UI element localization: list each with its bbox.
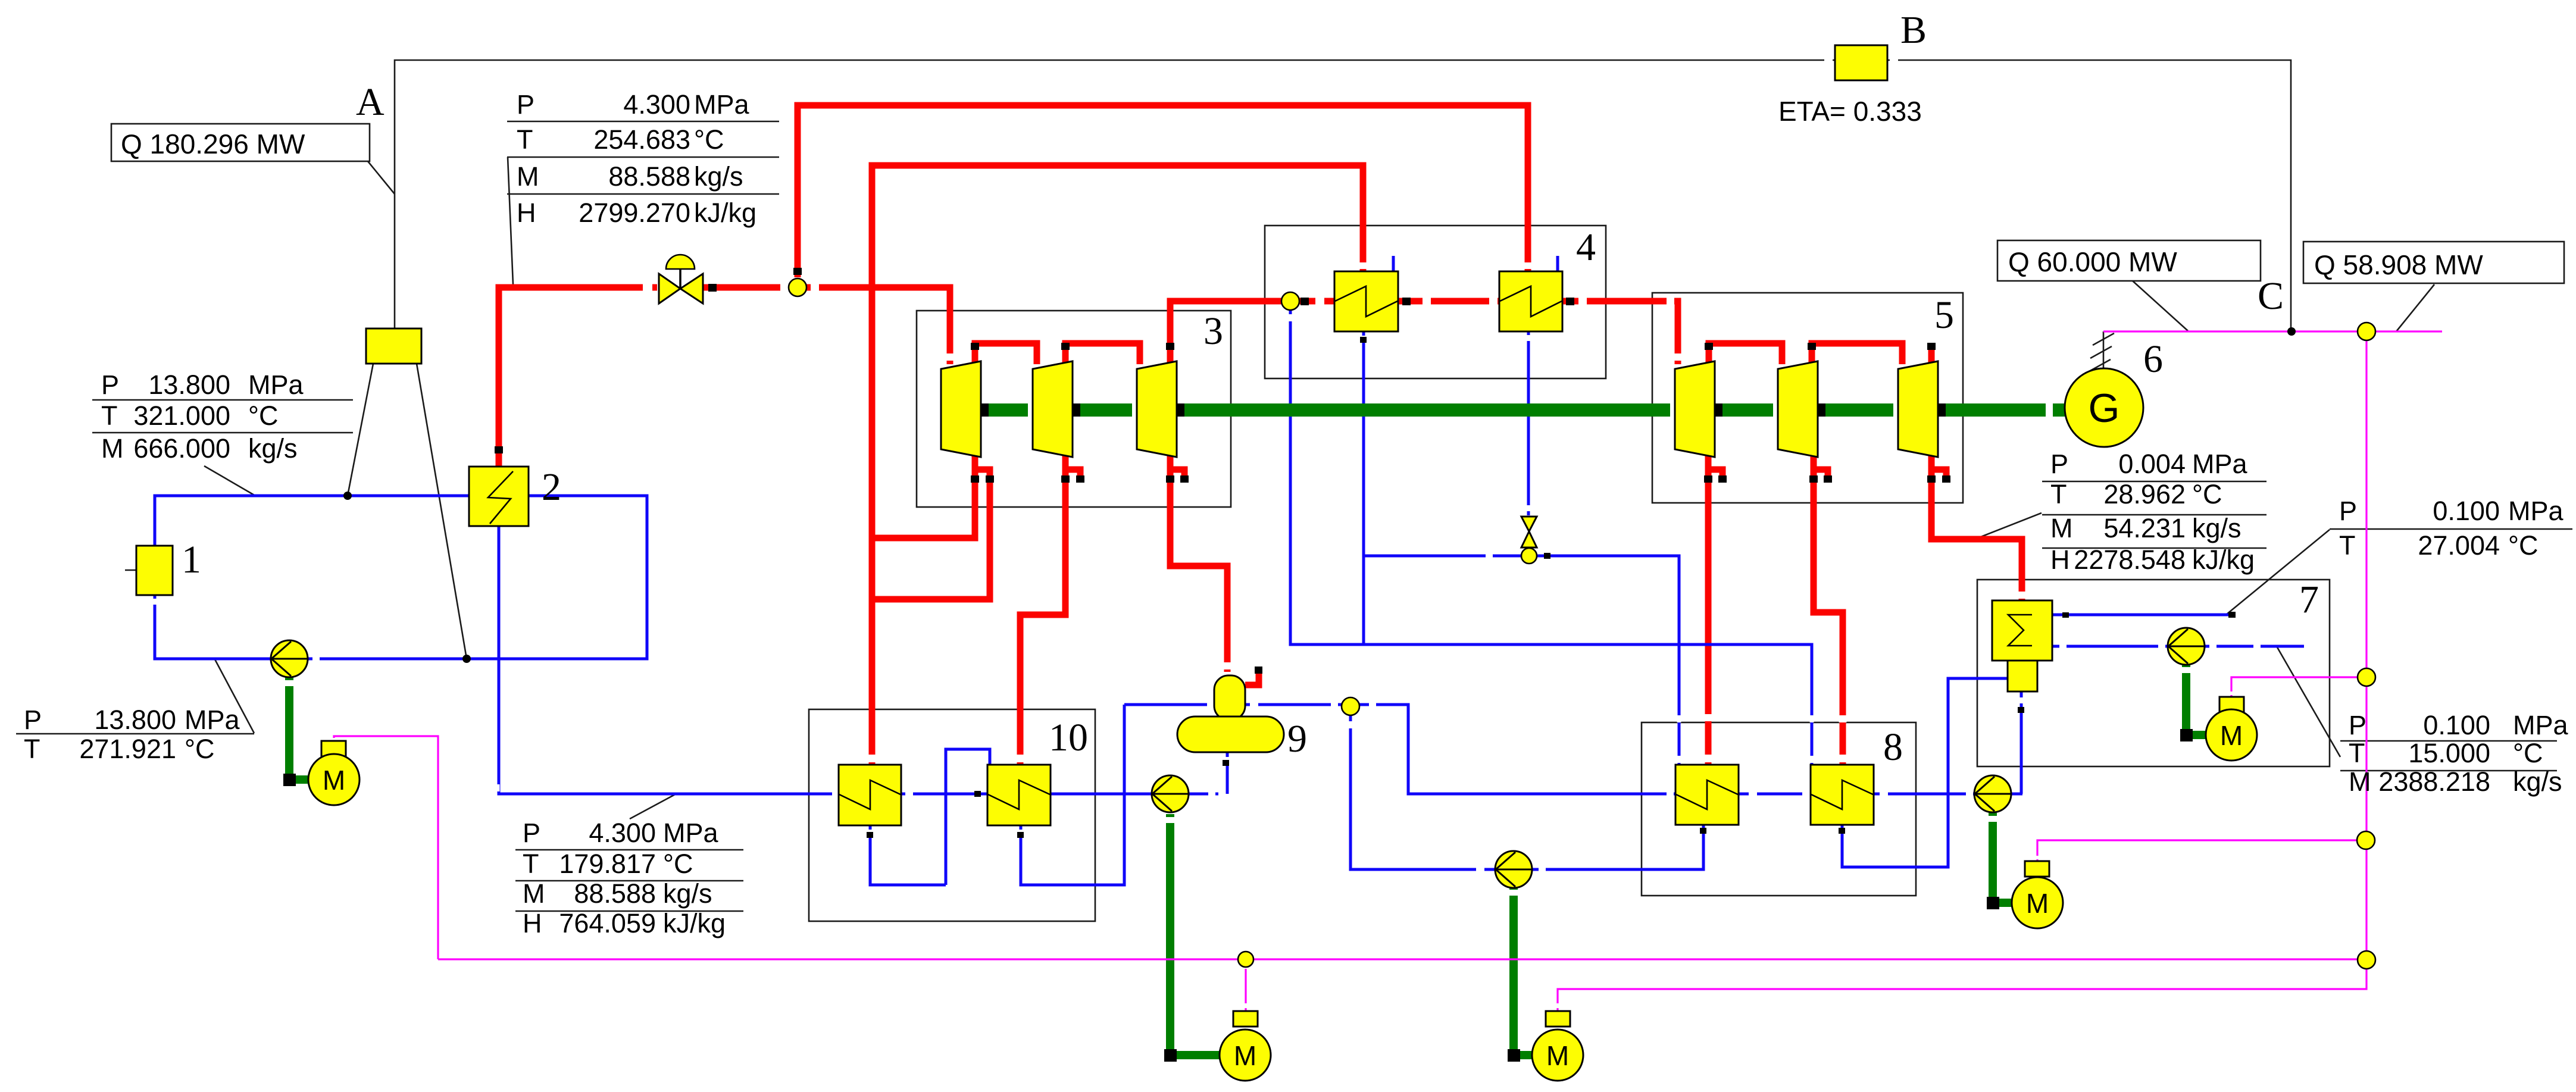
wire main steam node to turbine T1 — [806, 287, 950, 364]
svg-text:T: T — [101, 400, 118, 431]
wire T3 outlet to reheat node — [1170, 301, 1281, 364]
table main steam P T M H — [517, 89, 756, 228]
wire cold reheat riser to HX4a — [872, 165, 1363, 765]
port cooling outlet near condenser — [2062, 612, 2069, 618]
svg-text:T: T — [517, 124, 533, 155]
svg-text:MPa: MPa — [694, 89, 750, 120]
svg-text:0.100: 0.100 — [2423, 710, 2490, 740]
callout table P4.300 top — [508, 157, 513, 284]
ports T2 bottom — [1061, 475, 1070, 483]
port HX2 steam inlet — [495, 446, 503, 453]
wire HX4b top stub — [1556, 256, 1559, 271]
svg-text:T: T — [2349, 738, 2365, 768]
box group 3 HP turbine — [917, 311, 1231, 507]
svg-text:M: M — [323, 765, 345, 796]
svg-text:P: P — [2349, 710, 2366, 740]
callout table P13.800 T271 — [215, 659, 254, 733]
zigzag HX4b — [1500, 286, 1562, 317]
turbine T1 — [941, 361, 981, 457]
pump C condensate pump — [1974, 775, 2011, 812]
box group 4 reheaters — [1265, 226, 1606, 378]
wire cooling water inlet — [2052, 645, 2168, 648]
box group 8 LP heaters — [1642, 722, 1916, 896]
wire feed line pump A2 to deaerator leg — [1188, 793, 1218, 796]
svg-text:MPa: MPa — [2513, 710, 2569, 740]
wire cooling water outlet — [2052, 614, 2228, 617]
wire A sensor riser — [394, 63, 396, 328]
wire boiler loop bottom and right — [307, 496, 647, 659]
wire HX10b drain — [1021, 705, 1124, 885]
svg-text:ETA= 0.333: ETA= 0.333 — [1778, 96, 1922, 127]
callout table P13.800 M666 — [204, 466, 255, 496]
condenser 7 hotwell — [2008, 661, 2037, 692]
node power m4 — [2358, 951, 2375, 969]
deaerator 9 dome — [1214, 675, 1245, 720]
wire pump B discharge to HX8a — [1531, 825, 1703, 869]
wire signal line A to B to C (top) — [395, 60, 2291, 328]
wire T2 extraction stub — [1065, 470, 1080, 480]
svg-text:kJ/kg: kJ/kg — [694, 198, 756, 228]
shaft coupling T5b — [1812, 403, 1825, 417]
port deaerator leg — [1223, 760, 1229, 766]
gaps on red mains — [643, 287, 1674, 301]
port HX10a drain — [867, 832, 873, 838]
shaft coupling T3 — [1171, 403, 1184, 417]
wire condensate node to heaters 8 — [1359, 705, 1675, 794]
svg-text:M: M — [2026, 888, 2049, 919]
shaft coupling T1 — [976, 403, 989, 417]
wire condensate main left of deaerator — [1124, 703, 1342, 706]
port cooling outlet end — [2228, 612, 2236, 618]
wire T5a extraction stub — [1708, 470, 1722, 480]
svg-text:88.588: 88.588 — [608, 161, 690, 192]
svg-text:T: T — [523, 849, 539, 879]
junction dot A left — [343, 492, 352, 500]
svg-text:P: P — [2339, 496, 2357, 526]
wire power motor D line — [2231, 677, 2358, 697]
svg-text:4.300: 4.300 — [623, 89, 690, 120]
callout table P0.004 — [1975, 513, 2042, 539]
motor M pump B — [1532, 1011, 1583, 1081]
ports T3 bottom — [1166, 475, 1174, 483]
wire T5a extraction to HX8a — [1705, 448, 1712, 765]
underlines table P13.800 M666 — [92, 400, 353, 433]
port valve outlet — [708, 284, 717, 292]
wire T5c exhaust to condenser — [1931, 448, 2022, 600]
shaft pump B motor — [1514, 887, 1533, 1055]
underlines table P4.300 top — [507, 121, 779, 194]
table condenser P T M H — [2050, 449, 2255, 575]
svg-text:MPa: MPa — [2508, 496, 2564, 526]
svg-text:P: P — [517, 89, 534, 120]
heat exchanger 2 evaporator — [469, 467, 529, 526]
svg-text:27.004: 27.004 — [2418, 530, 2500, 561]
svg-text:H: H — [2050, 545, 2070, 575]
sigma condenser — [2008, 615, 2032, 646]
wire T3 extraction to deaerator — [1170, 448, 1227, 672]
svg-text:2388.218: 2388.218 — [2378, 766, 2490, 797]
valve drain top wing — [1521, 517, 1537, 531]
wire power below node m4 — [1558, 969, 2366, 1011]
svg-text:M: M — [101, 433, 124, 464]
heat exchanger 8a LP heater — [1675, 765, 1739, 825]
shaft elbow pump D — [2180, 729, 2193, 741]
svg-text:764.059: 764.059 — [559, 908, 656, 938]
deaerator 9 vessel — [1177, 716, 1284, 752]
underlines table P4.300 bottom — [515, 850, 743, 911]
svg-text:M: M — [2220, 720, 2243, 751]
wire T3 extraction stub — [1170, 470, 1184, 480]
gaps on magenta at motors — [334, 692, 2366, 1008]
svg-text:28.962: 28.962 — [2103, 479, 2186, 509]
wire crossover T5a-T5b — [1709, 343, 1782, 364]
zigzag HX10b — [988, 780, 1050, 809]
port HX4b outlet — [1566, 298, 1574, 305]
port HX10b drain — [1017, 832, 1024, 838]
svg-text:°C: °C — [2192, 479, 2222, 509]
svg-text:M: M — [1546, 1040, 1569, 1071]
wire T5b extraction to HX8b — [1814, 448, 1843, 765]
svg-text:321.000: 321.000 — [133, 400, 230, 431]
valve main steam right wing — [680, 274, 703, 303]
box group 10 HP heaters — [809, 709, 1095, 921]
port feed line HX10b — [974, 791, 981, 797]
svg-text:3: 3 — [1203, 309, 1223, 353]
gaps on pump shafts — [289, 667, 2186, 896]
wire power motor A2 drop — [1245, 969, 1246, 1011]
svg-text:254.683: 254.683 — [593, 124, 690, 155]
svg-text:4: 4 — [1576, 226, 1596, 269]
svg-text:°C: °C — [694, 124, 724, 155]
wire hot reheat line through box4 to T5a — [1299, 301, 1678, 364]
port T2 crossover — [1061, 343, 1070, 350]
wire T5c exhaust stub — [1931, 470, 1946, 480]
wire hotwell condensate leg — [2020, 692, 2023, 794]
svg-text:666.000: 666.000 — [133, 433, 230, 464]
table cooling inlet P T M — [2349, 710, 2569, 797]
wire HX8b drain to hotwell — [1842, 678, 2008, 867]
svg-text:P: P — [523, 818, 540, 848]
shaft pump A2 motor — [1170, 814, 1221, 1055]
svg-text:kg/s: kg/s — [2192, 513, 2242, 543]
motor M pump C — [2012, 861, 2063, 928]
svg-text:0.100: 0.100 — [2433, 496, 2500, 526]
pump A feedwater — [271, 640, 308, 677]
wire T5c top port stub — [1928, 346, 1935, 364]
callout Q180 box — [368, 161, 395, 194]
port deaerator vent — [1255, 667, 1262, 674]
valve drain bottom wing — [1521, 531, 1537, 547]
ports T5b bottom — [1809, 475, 1818, 483]
svg-text:8: 8 — [1883, 725, 1903, 769]
port T5b crossover — [1808, 343, 1816, 350]
zigzag HX2 — [488, 471, 513, 524]
wire HX10a drain bridge — [946, 749, 990, 885]
svg-text:B: B — [1900, 8, 1927, 52]
wire power motor C line — [2037, 840, 2357, 861]
turbine T3 — [1137, 361, 1177, 457]
wire T1 extraction main — [872, 448, 975, 538]
svg-text:kg/s: kg/s — [2513, 766, 2562, 797]
wire A sensor right leg — [417, 364, 467, 659]
callout table P0.100 T27 — [2226, 530, 2330, 615]
generator brush hatches — [2089, 333, 2114, 371]
box group 7 condenser unit — [1977, 580, 2330, 766]
heat exchanger 10b HP heater — [987, 765, 1051, 825]
wire deaerator down leg — [1226, 752, 1229, 794]
pump A2 feed pump — [1152, 775, 1189, 812]
svg-text:M: M — [2349, 766, 2371, 797]
svg-text:A: A — [356, 80, 384, 124]
svg-text:P: P — [2050, 449, 2068, 479]
svg-text:M: M — [517, 161, 539, 192]
wire node to pump B suction — [1350, 715, 1496, 869]
wire T1 extraction second — [872, 470, 990, 599]
svg-text:88.588: 88.588 — [574, 878, 656, 909]
wire crossover T2-T3 — [1065, 343, 1140, 364]
valve main steam left wing — [659, 274, 680, 303]
svg-text:T: T — [24, 734, 40, 764]
svg-text:1: 1 — [182, 538, 201, 581]
callout Q58.9 box — [2396, 284, 2434, 331]
underline table P0.100 T27 — [2330, 528, 2572, 530]
svg-text:13.800: 13.800 — [94, 705, 176, 735]
port HX4a inlet — [1300, 298, 1309, 305]
port T5a crossover — [1705, 343, 1713, 350]
heat exchanger 10a HP heater — [839, 765, 901, 825]
junction dot C — [2287, 327, 2296, 336]
svg-text:M: M — [2050, 513, 2073, 543]
wire HX4a top stub — [1392, 256, 1395, 271]
node steam splitter at valve — [789, 279, 806, 296]
motor M pump A2 — [1220, 1011, 1271, 1081]
wire HX4a drain — [1362, 331, 1365, 644]
wire T2 extraction to HX10b — [1020, 448, 1065, 765]
svg-text:kg/s: kg/s — [248, 433, 298, 464]
shaft elbow pump A2 — [1164, 1049, 1177, 1062]
callout table P0.100 T15 — [2277, 646, 2340, 757]
svg-text:271.921: 271.921 — [79, 734, 176, 764]
wire cooling water supply — [2204, 645, 2304, 648]
ports T5c bottom — [1927, 475, 1936, 483]
svg-text:T: T — [2339, 530, 2356, 561]
component 1 inlet tick — [125, 570, 136, 571]
wire main steam HX2 riser — [499, 287, 657, 467]
zigzag HX10a — [839, 780, 901, 809]
shaft coupling T5c — [1933, 403, 1946, 417]
zigzag HX8b — [1811, 780, 1873, 809]
svg-text:2278.548: 2278.548 — [2074, 545, 2186, 575]
generator brush line — [2103, 331, 2105, 368]
table feedwater P T M H — [523, 818, 726, 938]
frame Q 180.296 MW — [111, 124, 370, 161]
svg-text:Q 60.000 MW: Q 60.000 MW — [2008, 246, 2177, 277]
svg-text:P: P — [101, 370, 119, 400]
frame Q 60.000 MW — [1997, 240, 2261, 281]
wire reheat node drain to HX8b — [1290, 310, 1812, 765]
sensor A (measurement) — [366, 328, 421, 364]
motor M pump D — [2206, 697, 2257, 761]
turbine T5a — [1675, 361, 1715, 457]
turbine T5b — [1778, 361, 1818, 457]
sensor B (efficiency) — [1835, 45, 1887, 80]
turbine T2 — [1033, 361, 1073, 457]
table feed P T — [24, 705, 240, 764]
port valve node outlet — [1544, 553, 1550, 559]
node power A2 — [1238, 952, 1253, 967]
underline table P13.800 T271 — [16, 733, 254, 735]
wire valve node branch left — [1364, 555, 1522, 558]
wire power motor A riser — [334, 736, 438, 959]
node power m2 — [2358, 668, 2375, 686]
table boiler outlet P T M — [101, 370, 304, 464]
port T3 outlet — [1166, 343, 1174, 350]
zigzag HX8a — [1676, 780, 1738, 809]
gaps on signal line at sensors — [1824, 59, 1898, 62]
svg-text:13.800: 13.800 — [148, 370, 230, 400]
node drain valve outlet — [1521, 548, 1537, 564]
wire deaerator vent stub — [1245, 670, 1259, 685]
turbine T5c — [1898, 361, 1938, 457]
svg-text:kJ/kg: kJ/kg — [663, 908, 726, 938]
svg-text:C: C — [2258, 274, 2284, 318]
port HX4a outlet — [1402, 298, 1411, 305]
shaft pump D motor — [2186, 664, 2206, 735]
wire boiler loop top — [155, 496, 469, 546]
wire T5b extraction stub — [1814, 470, 1828, 480]
port HX8a drain — [1700, 828, 1706, 834]
component 1 boiler drum — [136, 546, 173, 595]
svg-text:5: 5 — [1934, 293, 1954, 337]
svg-text:°C: °C — [185, 734, 215, 764]
ports T1 bottom — [971, 475, 979, 483]
svg-text:°C: °C — [663, 849, 693, 879]
shaft elbow pump C — [1987, 897, 1999, 909]
wire HX4b drain to valve — [1527, 331, 1530, 515]
heat exchanger 4b reheater — [1499, 271, 1562, 331]
node condensate deaerator — [1342, 697, 1359, 715]
shaft coupling T2 — [1067, 403, 1080, 417]
port T5c top — [1927, 343, 1936, 350]
svg-text:T: T — [2050, 479, 2067, 509]
svg-text:kJ/kg: kJ/kg — [2192, 545, 2255, 575]
box group 5 LP turbine — [1652, 293, 1963, 503]
pump B heater drain pump — [1495, 851, 1532, 888]
svg-text:2799.270: 2799.270 — [579, 198, 690, 228]
shaft elbow pump A — [283, 774, 296, 786]
svg-text:G: G — [2089, 386, 2120, 431]
wire HX10a drain — [870, 825, 946, 885]
ports T5a bottom — [1704, 475, 1712, 483]
wire boiler loop left side — [155, 595, 271, 659]
node power m3 — [2357, 831, 2375, 849]
shaft pump A motor — [289, 677, 308, 780]
svg-text:MPa: MPa — [663, 818, 719, 848]
wire crossover T1-T2 — [975, 343, 1037, 364]
shaft pump C motor — [1993, 813, 2014, 903]
callout Q60 box — [2133, 281, 2188, 331]
wire valve node branch to HX8a — [1536, 556, 1679, 765]
callout table P4.300 bottom — [630, 794, 676, 819]
svg-text:6: 6 — [2143, 337, 2163, 381]
port HX4a drain — [1360, 337, 1367, 343]
underlines table P0.004 — [2042, 481, 2266, 548]
svg-text:MPa: MPa — [248, 370, 304, 400]
svg-text:2: 2 — [542, 465, 561, 509]
svg-text:H: H — [523, 908, 542, 938]
port hotwell leg — [2018, 707, 2024, 713]
wire power line generator to stub — [2103, 330, 2442, 332]
shaft elbow pump B — [1508, 1049, 1520, 1062]
wire power main vertical — [2365, 340, 2367, 951]
port node riser — [793, 268, 802, 275]
wire condensate through HX8 to pump C — [1739, 793, 1975, 796]
wire crossover T5b-T5c — [1812, 343, 1902, 364]
svg-text:MPa: MPa — [2192, 449, 2248, 479]
underlines table P0.100 T15 — [2340, 741, 2557, 771]
pump D cooling water pump — [2168, 628, 2205, 665]
wire reheat supply to HX4b — [798, 105, 1528, 277]
table cooling outlet P T — [2339, 496, 2564, 561]
svg-text:Q 180.296 MW: Q 180.296 MW — [121, 129, 305, 159]
svg-text:kg/s: kg/s — [663, 878, 712, 909]
svg-text:179.817: 179.817 — [559, 849, 656, 879]
svg-text:54.231: 54.231 — [2103, 513, 2186, 543]
heat exchanger 4a reheater — [1334, 271, 1398, 331]
svg-text:15.000: 15.000 — [2408, 738, 2490, 768]
zigzag HX4a — [1335, 286, 1398, 317]
generator 6 — [2065, 368, 2143, 447]
condenser 7 body — [1992, 600, 2052, 661]
port HX8b drain — [1839, 828, 1845, 834]
node power m1 — [2358, 323, 2375, 340]
junction dot A right — [462, 655, 471, 663]
wire main steam valve to node — [704, 284, 789, 291]
svg-text:°C: °C — [2508, 530, 2539, 561]
svg-text:H: H — [517, 198, 536, 228]
heat exchanger 8b LP heater — [1811, 765, 1874, 825]
wire power motors A line — [438, 958, 2357, 960]
motor M pump A — [308, 741, 359, 805]
port T1 crossover — [971, 343, 979, 350]
svg-text:°C: °C — [248, 400, 279, 431]
wire pump C to hotwell leg — [2011, 793, 2022, 796]
valve main steam actuator — [666, 255, 695, 289]
svg-text:0.004: 0.004 — [2118, 449, 2186, 479]
node reheat junction — [1281, 292, 1299, 310]
shaft main turbine-generator — [938, 403, 2065, 417]
svg-text:kg/s: kg/s — [694, 161, 743, 192]
svg-text:M: M — [1234, 1040, 1256, 1071]
svg-text:MPa: MPa — [185, 705, 240, 735]
svg-text:M: M — [523, 878, 545, 909]
svg-text:°C: °C — [2513, 738, 2543, 768]
svg-text:10: 10 — [1049, 716, 1088, 759]
svg-text:7: 7 — [2299, 578, 2319, 621]
svg-text:9: 9 — [1287, 717, 1307, 761]
svg-text:P: P — [24, 705, 42, 735]
gaps on blue lines — [280, 555, 2261, 869]
svg-text:4.300: 4.300 — [589, 818, 656, 848]
frame Q 58.908 MW — [2303, 242, 2564, 283]
gaps on main shaft at turbine inlets — [936, 403, 2053, 417]
svg-text:Q 58.908 MW: Q 58.908 MW — [2314, 249, 2483, 280]
shaft coupling T5a — [1709, 403, 1722, 417]
wire A sensor left leg — [348, 364, 373, 496]
wire feedwater HX2 downcomer and main feed line — [499, 526, 1152, 794]
